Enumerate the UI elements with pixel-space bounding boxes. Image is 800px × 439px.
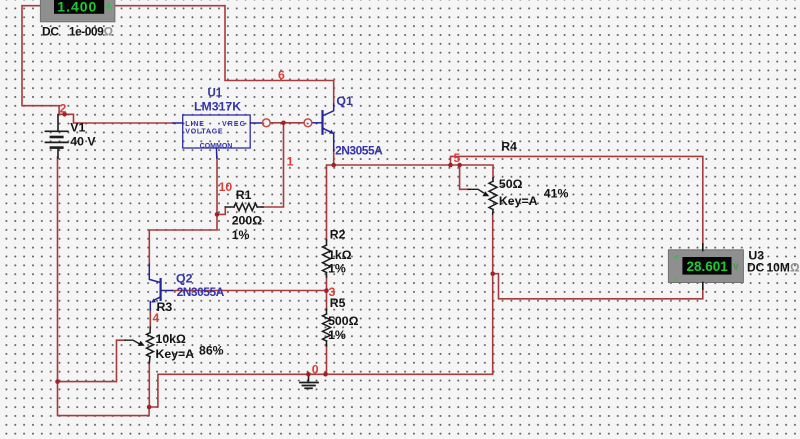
svg-text:LINE: LINE — [185, 121, 205, 128]
svg-text:+: + — [674, 252, 679, 262]
svg-text:1.400: 1.400 — [57, 0, 97, 15]
svg-text:500Ω: 500Ω — [328, 314, 359, 328]
svg-text:40 V: 40 V — [70, 134, 96, 148]
svg-text:Q1: Q1 — [336, 94, 353, 108]
svg-text:0: 0 — [312, 363, 319, 377]
svg-text:A: A — [106, 2, 112, 11]
svg-text:LM317K: LM317K — [194, 100, 241, 114]
svg-text:28.601: 28.601 — [687, 259, 729, 274]
svg-text:6: 6 — [278, 68, 285, 82]
svg-text:COMMON: COMMON — [200, 143, 233, 150]
svg-text:1kΩ: 1kΩ — [328, 248, 352, 262]
svg-text:2N3055A: 2N3055A — [177, 285, 225, 299]
svg-text:200Ω: 200Ω — [232, 214, 263, 228]
svg-text:Q2: Q2 — [176, 271, 193, 285]
svg-text:41%: 41% — [544, 187, 569, 201]
svg-text:3: 3 — [329, 285, 336, 299]
svg-text:1e-009: 1e-009 — [69, 25, 104, 39]
svg-text:2N3055A: 2N3055A — [335, 143, 383, 157]
svg-text:Key=A: Key=A — [156, 347, 195, 361]
svg-text:10kΩ: 10kΩ — [156, 332, 187, 346]
svg-text:Ω: Ω — [104, 25, 114, 39]
svg-text:VOLTAGE: VOLTAGE — [185, 129, 223, 136]
svg-text:1: 1 — [287, 154, 294, 168]
svg-text:R2: R2 — [330, 228, 346, 242]
svg-text:86%: 86% — [199, 344, 224, 358]
svg-text:U1: U1 — [208, 88, 223, 100]
svg-text:V: V — [733, 263, 739, 272]
svg-text:VREG: VREG — [222, 121, 246, 128]
svg-text:2: 2 — [60, 102, 67, 116]
svg-text:-: - — [674, 274, 677, 284]
svg-text:DC: DC — [42, 25, 59, 39]
svg-text:10M: 10M — [767, 261, 790, 275]
svg-text:R4: R4 — [501, 140, 517, 154]
svg-text:5: 5 — [454, 151, 461, 165]
svg-text:1%: 1% — [328, 262, 346, 276]
svg-text:50Ω: 50Ω — [499, 177, 523, 191]
svg-text:Key=A: Key=A — [499, 194, 538, 208]
svg-text:R1: R1 — [236, 188, 252, 202]
svg-text:DC: DC — [747, 261, 765, 275]
svg-text:1%: 1% — [232, 228, 250, 242]
svg-text:Ω: Ω — [790, 261, 800, 275]
svg-text:1%: 1% — [328, 328, 346, 342]
svg-text:4: 4 — [153, 311, 160, 325]
svg-text:10: 10 — [219, 180, 233, 194]
svg-text:V1: V1 — [70, 121, 85, 135]
